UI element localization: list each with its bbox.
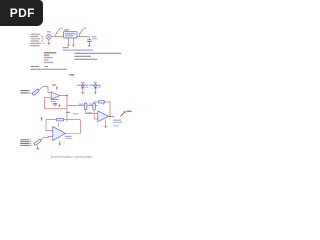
- svg-text:Instrumentation preamplifier: Instrumentation preamplifier: [51, 155, 94, 159]
